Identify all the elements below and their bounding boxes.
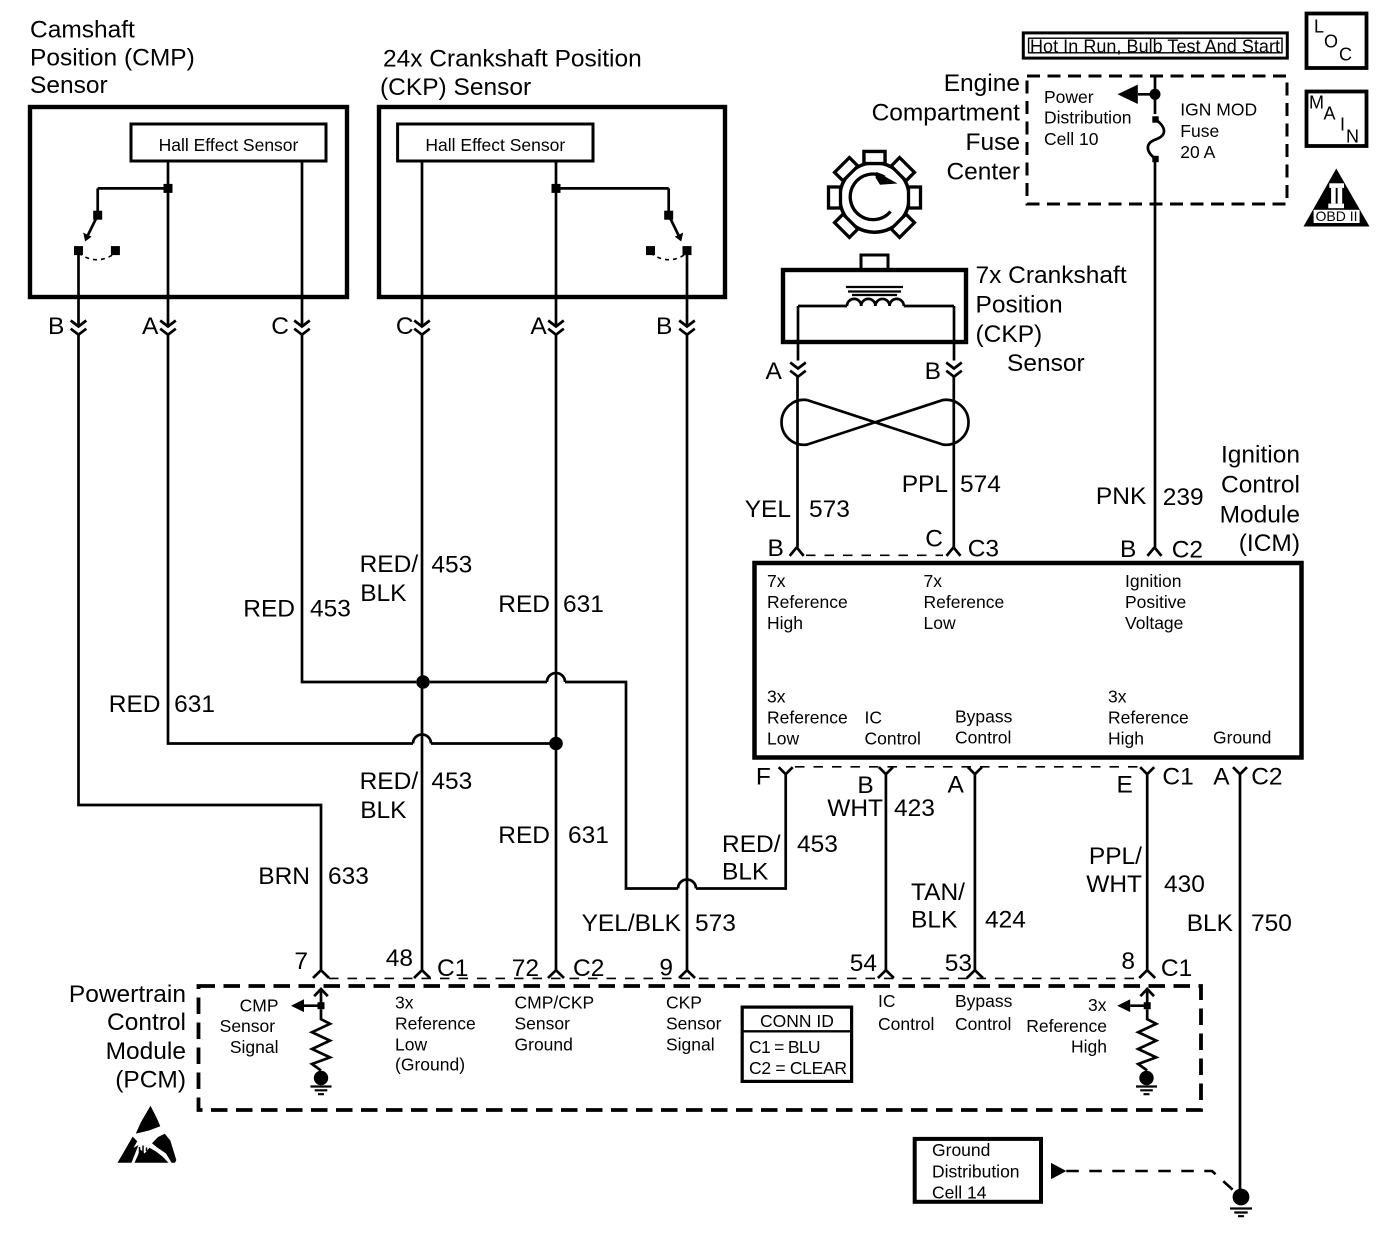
ICM text IC Control: [865, 708, 921, 749]
svg-text:3x: 3x: [767, 687, 786, 707]
svg-text:CMP: CMP: [240, 996, 279, 1016]
svg-text:(ICM): (ICM): [1239, 530, 1300, 557]
svg-text:CONN ID: CONN ID: [760, 1011, 834, 1031]
svg-text:Low: Low: [924, 613, 956, 633]
core lines: [846, 287, 903, 295]
svg-text:Sensor: Sensor: [30, 72, 108, 99]
svg-text:631: 631: [568, 822, 609, 849]
wire label RED/BLK 453 upper: [360, 551, 473, 607]
fuse IGN MOD 20 A: [1148, 116, 1164, 162]
svg-text:Position: Position: [976, 291, 1063, 318]
resistor R1 (CMP pull): [312, 1009, 330, 1070]
switch S2 in CKP sensor: [552, 184, 692, 260]
svg-text:C1: C1: [1162, 763, 1193, 790]
svg-text:A: A: [765, 358, 782, 385]
OBD II symbol: [1304, 169, 1370, 227]
wire BLK 750 ICM pin A to ground: [1239, 774, 1242, 1190]
svg-text:Control: Control: [955, 1014, 1011, 1034]
svg-text:Fuse: Fuse: [1180, 121, 1219, 141]
svg-text:A: A: [142, 313, 159, 340]
Engine Compartment Fuse Center dashed box: [1027, 76, 1287, 204]
7x CKP sensor box: [783, 255, 966, 342]
svg-text:C1: C1: [1161, 955, 1192, 982]
title 24x Crankshaft Position (CKP) Sensor: [380, 46, 642, 101]
svg-text:Low: Low: [767, 729, 799, 749]
wire label WHT 423: [827, 795, 935, 822]
wire label PNK 239: [1096, 483, 1204, 511]
svg-text:C: C: [1339, 44, 1352, 64]
svg-text:PPL/: PPL/: [1089, 843, 1142, 870]
svg-text:574: 574: [960, 471, 1001, 498]
svg-text:Ground: Ground: [1213, 728, 1271, 748]
svg-text:453: 453: [310, 595, 351, 622]
PCM text IC Control: [878, 991, 934, 1034]
ICM text Ignition Positive Voltage: [1125, 571, 1186, 633]
ICM pin C C3 (7x Reference Low) top connector: [925, 525, 999, 562]
label Power Distribution Cell 10: [1044, 87, 1132, 149]
svg-text:Control: Control: [1221, 471, 1300, 498]
svg-text:239: 239: [1163, 484, 1204, 511]
svg-text:A: A: [530, 313, 547, 340]
junction node 453: [416, 675, 430, 689]
wire label BRN 633: [258, 863, 369, 890]
svg-text:Sensor: Sensor: [1007, 350, 1085, 377]
wire label RED 631 (CKP A): [498, 591, 604, 618]
svg-text:E: E: [1116, 771, 1132, 798]
svg-text:L: L: [1314, 17, 1324, 37]
svg-text:TAN/: TAN/: [911, 879, 965, 906]
svg-text:PNK: PNK: [1096, 483, 1147, 510]
label Powertrain Control Module (PCM): [69, 981, 186, 1094]
wire label BLK 750: [1187, 910, 1292, 937]
svg-text:Distribution: Distribution: [1044, 107, 1132, 127]
wire TAN/BLK 424 ICM pin A to PCM pin 53: [974, 774, 977, 970]
svg-text:OBD II: OBD II: [1315, 208, 1357, 224]
svg-text:Module: Module: [106, 1038, 186, 1065]
svg-text:53: 53: [945, 950, 972, 977]
svg-text:BLK: BLK: [1187, 910, 1234, 937]
svg-text:A: A: [947, 772, 964, 799]
wire label RED 631 (to pin 72): [498, 822, 609, 849]
svg-text:Sensor: Sensor: [515, 1014, 571, 1034]
PCM pin 53 connector: [945, 950, 983, 978]
wire YEL/BLK 573 from CKP pin B to PCM pin 9: [686, 335, 689, 971]
svg-text:(CKP) Sensor: (CKP) Sensor: [380, 74, 531, 101]
svg-text:20 A: 20 A: [1180, 142, 1215, 162]
svg-text:430: 430: [1164, 871, 1205, 898]
junction node 631: [549, 737, 563, 751]
svg-text:Signal: Signal: [666, 1035, 715, 1055]
connector arrows C A B below CKP box: [414, 321, 695, 335]
svg-text:YEL/BLK: YEL/BLK: [582, 910, 682, 937]
title 7x Crankshaft Position (CKP) Sensor: [976, 262, 1127, 377]
svg-text:C: C: [271, 313, 289, 340]
svg-text:Voltage: Voltage: [1125, 613, 1183, 633]
svg-text:Control: Control: [955, 728, 1011, 748]
Hall Effect Sensor box (24x CKP): [398, 124, 593, 161]
dashed wire to chassis ground: [1066, 1171, 1233, 1190]
PCM text 3x Reference High: [1026, 995, 1107, 1057]
svg-text:Hot In Run, Bulb Test And Star: Hot In Run, Bulb Test And Start: [1030, 36, 1280, 56]
svg-text:Control: Control: [865, 729, 921, 749]
label Ignition Control Module (ICM): [1220, 441, 1300, 557]
svg-text:631: 631: [174, 691, 215, 718]
svg-text:631: 631: [563, 591, 604, 618]
svg-text:424: 424: [985, 906, 1026, 933]
svg-text:Camshaft: Camshaft: [30, 16, 135, 43]
svg-text:Distribution: Distribution: [932, 1161, 1020, 1181]
wire from hot feed into fuse box: [1154, 76, 1157, 114]
svg-text:Reference: Reference: [395, 1014, 476, 1034]
wire label RED 453: [243, 595, 351, 622]
svg-text:750: 750: [1251, 910, 1292, 937]
svg-text:CMP/CKP: CMP/CKP: [515, 993, 595, 1013]
svg-text:RED/: RED/: [360, 768, 419, 795]
wire label YEL 573: [745, 496, 850, 523]
wire PNK 239 from fuse to ICM pin B C2: [1154, 159, 1157, 547]
connector dashed line ICM top: [806, 554, 943, 556]
svg-text:C: C: [925, 525, 943, 552]
svg-text:Fuse: Fuse: [966, 129, 1020, 156]
title Camshaft Position (CMP) Sensor: [30, 16, 195, 99]
PCM text CMP/CKP Sensor Ground: [515, 993, 595, 1055]
svg-text:Ignition: Ignition: [1125, 571, 1181, 591]
wire RED 631 from CMP pin A: [168, 335, 413, 744]
connector arrows A B below 7x CKP: [790, 363, 962, 377]
Hot In Run, Bulb Test And Start box: [1023, 33, 1287, 58]
wire A inside CKP: [555, 161, 558, 327]
svg-text:Ground: Ground: [932, 1140, 990, 1160]
ICM pin B (IC Control): [857, 767, 893, 799]
svg-text:Ignition: Ignition: [1221, 441, 1300, 468]
svg-text:7: 7: [294, 948, 308, 975]
svg-text:48: 48: [386, 945, 413, 972]
ground G1 (PCM internal): [311, 1071, 332, 1094]
wire label PPL 574: [902, 471, 1001, 498]
svg-text:C1 = BLU: C1 = BLU: [749, 1037, 821, 1057]
svg-text:Module: Module: [1220, 501, 1300, 528]
svg-text:Center: Center: [946, 158, 1020, 185]
svg-text:423: 423: [894, 795, 935, 822]
wire label RED 631 (CMP A): [109, 691, 215, 718]
PCM pin 48 C1 connector: [386, 945, 469, 982]
svg-text:A: A: [1213, 763, 1230, 790]
svg-text:(Ground): (Ground): [395, 1055, 465, 1075]
ground G2 (PCM internal): [1136, 1071, 1157, 1094]
pin 8 internal: arrow up: [1140, 989, 1154, 1006]
svg-text:Reference: Reference: [924, 592, 1005, 612]
label Engine Compartment Fuse Center: [872, 70, 1021, 186]
reluctor gear icon: [829, 152, 921, 238]
svg-text:Cell 10: Cell 10: [1044, 129, 1099, 149]
PCM pin 9 connector: [659, 954, 695, 981]
wire label TAN/BLK 424: [911, 879, 1026, 934]
connector arrows B A C below CMP box: [71, 321, 310, 335]
svg-text:C3: C3: [968, 536, 999, 563]
hop over pin48 wire: [413, 735, 431, 744]
svg-text:Power: Power: [1044, 87, 1094, 107]
svg-text:PPL: PPL: [902, 471, 948, 498]
svg-text:573: 573: [809, 496, 850, 523]
svg-text:9: 9: [659, 954, 673, 981]
svg-text:C: C: [396, 313, 414, 340]
wire B lead (7x CKP): [953, 306, 956, 361]
PCM text 3x Reference Low (Ground): [395, 993, 476, 1075]
svg-text:Powertrain: Powertrain: [69, 981, 186, 1008]
svg-text:BLK: BLK: [360, 580, 407, 607]
MAIN symbol box: [1307, 92, 1367, 147]
svg-text:Sensor: Sensor: [666, 1014, 722, 1034]
wire BRN 633 from CMP pin B to PCM pin 7: [79, 335, 322, 971]
svg-text:B: B: [48, 313, 64, 340]
wire to junction: [431, 742, 556, 745]
wire label PPL/WHT 430: [1086, 843, 1205, 898]
svg-text:8: 8: [1121, 948, 1135, 975]
svg-text:Bypass: Bypass: [955, 991, 1013, 1011]
wire RED 631 from CKP pin A to PCM pin 72: [555, 335, 558, 971]
arrow to Power Distribution Cell 10: [1118, 85, 1156, 104]
ICM pin E C1 (3x Reference High): [1116, 763, 1193, 798]
wire C inside CKP: [421, 161, 424, 327]
svg-text:Low: Low: [395, 1035, 427, 1055]
wire label RED/BLK 453 lower: [360, 768, 473, 824]
svg-text:Engine: Engine: [944, 70, 1020, 97]
svg-text:RED: RED: [243, 595, 295, 622]
svg-text:High: High: [1071, 1037, 1107, 1057]
pin 8 internal node: [1144, 1002, 1151, 1009]
CONN ID table: [742, 1007, 851, 1081]
svg-text:RED/: RED/: [360, 551, 419, 578]
svg-text:3x: 3x: [1108, 687, 1127, 707]
pin 7 internal: arrow up: [314, 989, 328, 1006]
svg-text:N: N: [1346, 127, 1359, 147]
PCM dashed box: [199, 986, 1202, 1110]
svg-text:F: F: [756, 764, 771, 791]
svg-text:RED/: RED/: [722, 831, 781, 858]
svg-text:7x Crankshaft: 7x Crankshaft: [976, 262, 1127, 289]
wire B inside CMP: [77, 251, 80, 327]
wire from B arrow to twisted pair: [952, 377, 955, 548]
svg-text:Hall Effect Sensor: Hall Effect Sensor: [425, 135, 565, 155]
svg-text:Compartment: Compartment: [872, 99, 1021, 126]
ICM text 7x Reference Low: [924, 571, 1005, 633]
svg-text:B: B: [767, 535, 783, 562]
svg-text:B: B: [656, 313, 672, 340]
ICM box: [755, 563, 1302, 758]
ICM pin F (3x Reference Low): [756, 764, 793, 791]
svg-text:WHT: WHT: [827, 795, 883, 822]
svg-text:Control: Control: [107, 1009, 186, 1036]
wire from A arrow to twisted pair: [796, 377, 799, 548]
Ground Distribution Cell 14 box: [915, 1139, 1041, 1203]
pickup coil L1: [798, 299, 954, 306]
PCM pin 72 C2 connector: [512, 955, 605, 982]
svg-text:A: A: [1324, 104, 1336, 124]
wire RED/BLK 453 from CKP pin C to PCM pin 48: [421, 335, 424, 971]
svg-text:High: High: [1108, 729, 1144, 749]
ICM text 3x Reference Low: [767, 687, 848, 749]
svg-text:RED: RED: [498, 822, 550, 849]
svg-text:Bypass: Bypass: [955, 707, 1013, 727]
svg-text:IC: IC: [865, 708, 883, 728]
svg-text:Reference: Reference: [1026, 1016, 1107, 1036]
svg-text:B: B: [1120, 536, 1136, 563]
svg-text:RED: RED: [498, 591, 550, 618]
label IGN MOD Fuse 20 A: [1180, 100, 1257, 163]
ICM pin B (7x Reference High) top connector: [767, 535, 803, 562]
chassis ground G100: [1230, 1189, 1252, 1217]
svg-text:Reference: Reference: [767, 708, 848, 728]
svg-text:Reference: Reference: [1108, 708, 1189, 728]
wire B inside CKP: [686, 251, 689, 327]
wire branch 453 to ICM pin F with hops: [430, 673, 786, 889]
wire label YEL/BLK 573: [582, 910, 736, 937]
svg-text:YEL: YEL: [745, 496, 791, 523]
ICM text Bypass Control: [955, 707, 1013, 748]
svg-text:633: 633: [328, 863, 369, 890]
svg-text:Hall Effect Sensor: Hall Effect Sensor: [159, 135, 299, 155]
PCM pin 7 connector: [294, 948, 329, 978]
svg-text:Signal: Signal: [230, 1037, 279, 1057]
LOC symbol box: [1307, 14, 1367, 69]
PCM text CKP Sensor Signal: [666, 993, 722, 1055]
svg-text:453: 453: [431, 551, 472, 578]
wire C inside CMP: [301, 161, 304, 327]
switch S1 in CMP sensor: [74, 184, 173, 260]
svg-text:M: M: [1309, 93, 1324, 113]
svg-text:Cell 14: Cell 14: [932, 1183, 987, 1203]
svg-text:24x Crankshaft Position: 24x Crankshaft Position: [383, 46, 642, 73]
svg-text:B: B: [925, 358, 941, 385]
wire A inside CMP (Hall to exit): [167, 161, 170, 327]
ESD warning symbol: [118, 1106, 177, 1163]
arrow from Ground Distribution box: [1051, 1163, 1066, 1179]
wire label RED/BLK 453 at ICM pin F: [722, 831, 838, 886]
svg-text:7x: 7x: [924, 571, 943, 591]
svg-text:CKP: CKP: [666, 993, 702, 1013]
svg-text:573: 573: [695, 910, 736, 937]
ICM text 3x Reference High: [1108, 687, 1189, 749]
CMP sensor box: [30, 107, 347, 297]
svg-text:453: 453: [431, 768, 472, 795]
connector dashed line PCM top: [329, 977, 1139, 979]
svg-text:High: High: [767, 613, 803, 633]
PCM pin 8 C1 connector: [1121, 948, 1192, 982]
ICM pin A C2 (Ground): [1213, 763, 1282, 790]
svg-text:C2 = CLEAR: C2 = CLEAR: [749, 1058, 847, 1078]
svg-text:O: O: [1324, 32, 1338, 52]
svg-text:BRN: BRN: [258, 863, 310, 890]
resistor R2 (3x Reference High pull): [1138, 1009, 1156, 1070]
wire A lead (7x CKP): [797, 306, 800, 361]
pin 7 internal node: [318, 1002, 325, 1009]
connector dashed line ICM bottom: [795, 766, 1138, 768]
ICM pin A (Bypass Control): [947, 767, 981, 798]
svg-text:IGN MOD: IGN MOD: [1180, 100, 1257, 120]
ICM text 7x Reference High: [767, 571, 848, 633]
PCM pin 54 connector: [850, 950, 894, 978]
svg-text:WHT: WHT: [1086, 871, 1142, 898]
PCM text Bypass Control: [955, 991, 1013, 1034]
svg-text:(PCM): (PCM): [115, 1067, 186, 1094]
svg-text:(CKP): (CKP): [976, 321, 1043, 348]
svg-text:3x: 3x: [395, 993, 414, 1013]
wire WHT 423 ICM pin B to PCM pin 54: [885, 774, 888, 970]
svg-text:Ground: Ground: [515, 1035, 573, 1055]
svg-text:RED: RED: [109, 691, 161, 718]
24x CKP sensor box: [379, 107, 725, 297]
pin 8 internal: arrow left to 3x text: [1117, 999, 1147, 1012]
pin 7 internal: arrow left to CMP text: [291, 999, 321, 1012]
svg-text:BLK: BLK: [722, 858, 769, 885]
twisted pair symbol: [782, 400, 969, 445]
Hall Effect Sensor box (CMP): [131, 124, 326, 161]
svg-text:C2: C2: [1172, 537, 1203, 564]
svg-text:Reference: Reference: [767, 592, 848, 612]
svg-text:C2: C2: [1251, 763, 1282, 790]
svg-text:Sensor: Sensor: [220, 1016, 276, 1036]
svg-text:I: I: [1340, 115, 1345, 135]
svg-text:IC: IC: [878, 991, 896, 1011]
svg-text:Positive: Positive: [1125, 592, 1186, 612]
PCM text CMP Sensor Signal: [220, 996, 279, 1057]
ICM pin B C2 (Ignition Positive Voltage) top connector: [1120, 536, 1203, 564]
svg-text:54: 54: [850, 950, 877, 977]
svg-text:Control: Control: [878, 1014, 934, 1034]
svg-text:453: 453: [797, 831, 838, 858]
svg-text:BLK: BLK: [360, 797, 407, 824]
svg-text:7x: 7x: [767, 571, 786, 591]
svg-text:Position (CMP): Position (CMP): [30, 44, 195, 71]
svg-text:BLK: BLK: [911, 906, 958, 933]
wire RED 453 from CMP pin C: [302, 335, 416, 682]
node dot on feed: [1150, 89, 1161, 100]
wire PPL/WHT 430 ICM pin E to PCM pin 8: [1146, 774, 1149, 970]
svg-text:3x: 3x: [1088, 995, 1107, 1015]
